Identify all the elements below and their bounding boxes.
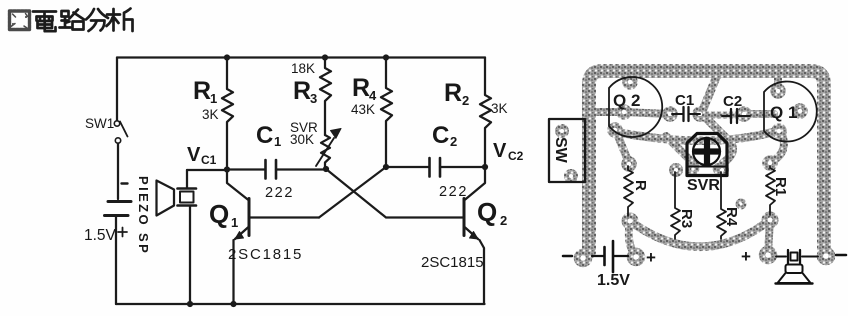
wire: top supply rail [117, 56, 485, 58]
label R3 [293, 77, 317, 106]
label R1 3K [193, 77, 219, 122]
svg-text:R3: R3 [678, 209, 695, 228]
svg-text:R: R [444, 79, 462, 107]
trace: top rail to Q1 top pad [774, 71, 782, 90]
switch SW1 [114, 121, 127, 143]
svg-text:C: C [256, 122, 273, 149]
resistor R1 [222, 58, 233, 170]
pad C2 right [739, 109, 749, 119]
svg-text:Q: Q [477, 197, 497, 227]
svg-text:PIEZO SP: PIEZO SP [136, 176, 151, 255]
pad battery minus [577, 252, 589, 264]
svg-text:2SC1815: 2SC1815 [228, 246, 303, 263]
pad Q2 base [619, 107, 629, 117]
trace: left border to Q2 flat side [590, 108, 625, 116]
wire: VC1 stub to piezo [187, 169, 227, 171]
svg-text:+: + [646, 248, 656, 267]
pad Q2 top [625, 77, 635, 87]
trace: Q2 collector to top rail [628, 71, 636, 82]
svg-text:SW: SW [552, 137, 569, 164]
resistor R2 [480, 58, 491, 168]
trace: Q2 pad to R top [616, 131, 629, 163]
speaker icon (pcb) [776, 250, 819, 284]
node dot Q1 emitter ground [230, 301, 236, 307]
pad SVR right [715, 165, 723, 173]
pad C1 right [695, 109, 705, 119]
svg-text:2: 2 [450, 134, 457, 149]
pad R4 top [718, 166, 727, 175]
svg-text:3: 3 [310, 91, 317, 106]
label VC2 [493, 140, 524, 163]
node dot R4 top [383, 54, 389, 60]
resistor R4 [381, 58, 392, 168]
svg-text:SVR: SVR [687, 177, 720, 194]
svg-text:1.5V: 1.5V [597, 272, 630, 289]
svg-text:3K: 3K [202, 107, 219, 122]
trace: Q2 base pad to C1 left pad [625, 112, 668, 114]
svg-text:R: R [293, 77, 311, 105]
label minus right [836, 254, 846, 257]
title text 電路分析 (hand-drawn strokes) [33, 9, 133, 32]
transistor Q1 package [764, 82, 817, 142]
node dot R3 top [322, 54, 328, 60]
svg-text:C2: C2 [508, 149, 524, 163]
mounting hole pad [738, 201, 745, 208]
capacitor C1 [227, 168, 326, 170]
wire: SW1 to battery [117, 144, 119, 200]
title icon square [10, 11, 30, 30]
trace: C1 right pad diagonal down to SVR right pad [704, 116, 733, 163]
battery 1.5V (pcb) [563, 241, 628, 272]
pad Q1 top [773, 86, 783, 96]
battery plus sign [118, 228, 127, 237]
variable resistor SVR [321, 135, 330, 169]
board outline copper border [589, 71, 824, 252]
wire: cross coupling R4 node to Q1 base [319, 167, 386, 218]
pad R top [624, 159, 634, 169]
trace: C2 to Q1 left pad [748, 110, 774, 118]
pad R1 top [765, 158, 775, 168]
svg-text:1.5V: 1.5V [84, 227, 117, 244]
svg-text:2: 2 [500, 213, 507, 228]
trace: stub between C1 and C2 pads [706, 112, 738, 119]
resistor R (pcb) [624, 166, 633, 216]
capacitor C2 [386, 166, 485, 168]
transistor Q1 [227, 170, 319, 305]
svg-text:C1: C1 [675, 92, 694, 109]
svg-text:30K: 30K [290, 132, 314, 147]
node dot piezo-ground [187, 301, 193, 307]
pad speaker minus [820, 250, 832, 262]
node dot VC2 [482, 164, 488, 170]
svg-text:Q: Q [209, 199, 229, 229]
pad R1 bottom [765, 215, 776, 226]
wire: left column top (rail to SW1) [116, 58, 118, 121]
resistor R3 (pcb) [671, 172, 680, 239]
svg-text:R1: R1 [772, 177, 789, 196]
svg-text:R: R [632, 180, 649, 191]
capacitor C1 symbol [672, 107, 700, 121]
svg-text:R: R [193, 77, 211, 105]
svg-text:2: 2 [462, 93, 469, 108]
pad SW bottom [567, 172, 576, 181]
label R4 43K [351, 74, 377, 117]
label Q2 [421, 197, 507, 271]
svg-text:V: V [187, 144, 201, 166]
transistor Q2 package [609, 77, 662, 137]
trace: Q1 pad to R1 top [771, 132, 784, 162]
svg-text:Q 1: Q 1 [770, 103, 797, 122]
trace: top rail diagonal to C1 right pad [702, 73, 718, 112]
trace: R1 bottom to speaker pad [768, 220, 770, 252]
svg-text:V: V [493, 140, 507, 162]
pad battery plus [630, 251, 642, 263]
svg-text:18K: 18K [291, 61, 315, 76]
node dot R4 bottom [383, 164, 389, 170]
svg-text:+: + [741, 247, 751, 266]
node dot C1-SVR [323, 166, 329, 172]
wire: bottom ground rail [116, 303, 485, 305]
pad Q1 bottom [774, 126, 784, 136]
svg-text:R4: R4 [723, 207, 740, 227]
wire: battery to bottom rail [115, 216, 117, 305]
resistor R4 (pcb) [717, 172, 726, 239]
pad speaker plus [762, 249, 774, 261]
trace: Q2 bottom to Q1 bottom behind SVR [617, 131, 777, 141]
label Q1 [209, 199, 303, 263]
trace: R bottom to battery plus pad [629, 221, 636, 255]
battery B1 minus tick [122, 182, 128, 184]
pad Q1 right [795, 106, 805, 116]
pad R bottom [625, 216, 636, 227]
pad R3 top [672, 166, 681, 175]
trace: long trace to SVR left pad [666, 136, 695, 165]
svg-text:SW1: SW1 [85, 116, 114, 131]
capacitor C2 symbol [722, 109, 750, 123]
svg-text:1: 1 [231, 215, 238, 230]
svg-text:C2: C2 [723, 93, 742, 110]
svg-text:R: R [352, 74, 370, 102]
label VC1 [187, 144, 217, 167]
speaker horn [157, 181, 175, 216]
svg-text:2SC1815: 2SC1815 [421, 254, 484, 271]
transistor Q2 [464, 167, 485, 304]
pad SW top [558, 127, 567, 136]
pad Q2 left-bottom [610, 125, 620, 135]
switch SW outline [549, 119, 585, 182]
svg-text:3K: 3K [491, 101, 508, 116]
svg-text:1: 1 [274, 134, 281, 149]
resistor R3 [320, 58, 331, 136]
svg-text:Q 2: Q 2 [613, 91, 640, 110]
piezo element PIEZO SP [178, 170, 197, 304]
resistor R1 (pcb) [766, 166, 775, 215]
pad C1 left [665, 109, 675, 119]
node dot R1 top [224, 54, 230, 60]
trimmer SVR package [687, 134, 727, 176]
svg-text:222: 222 [265, 185, 294, 201]
wire: cross coupling C1 node to Q2 base [326, 169, 464, 218]
node dot VC1 [224, 166, 230, 172]
svg-text:4: 4 [369, 88, 377, 103]
svg-text:43K: 43K [351, 102, 375, 117]
pad SVR left [689, 165, 697, 173]
label R2 3K [444, 79, 508, 116]
battery B1 plates [108, 200, 131, 203]
svg-text:1: 1 [210, 91, 217, 106]
trace: bottom arc R to R1 [630, 220, 770, 247]
svg-text:C: C [432, 122, 449, 149]
svg-text:C1: C1 [201, 153, 217, 167]
